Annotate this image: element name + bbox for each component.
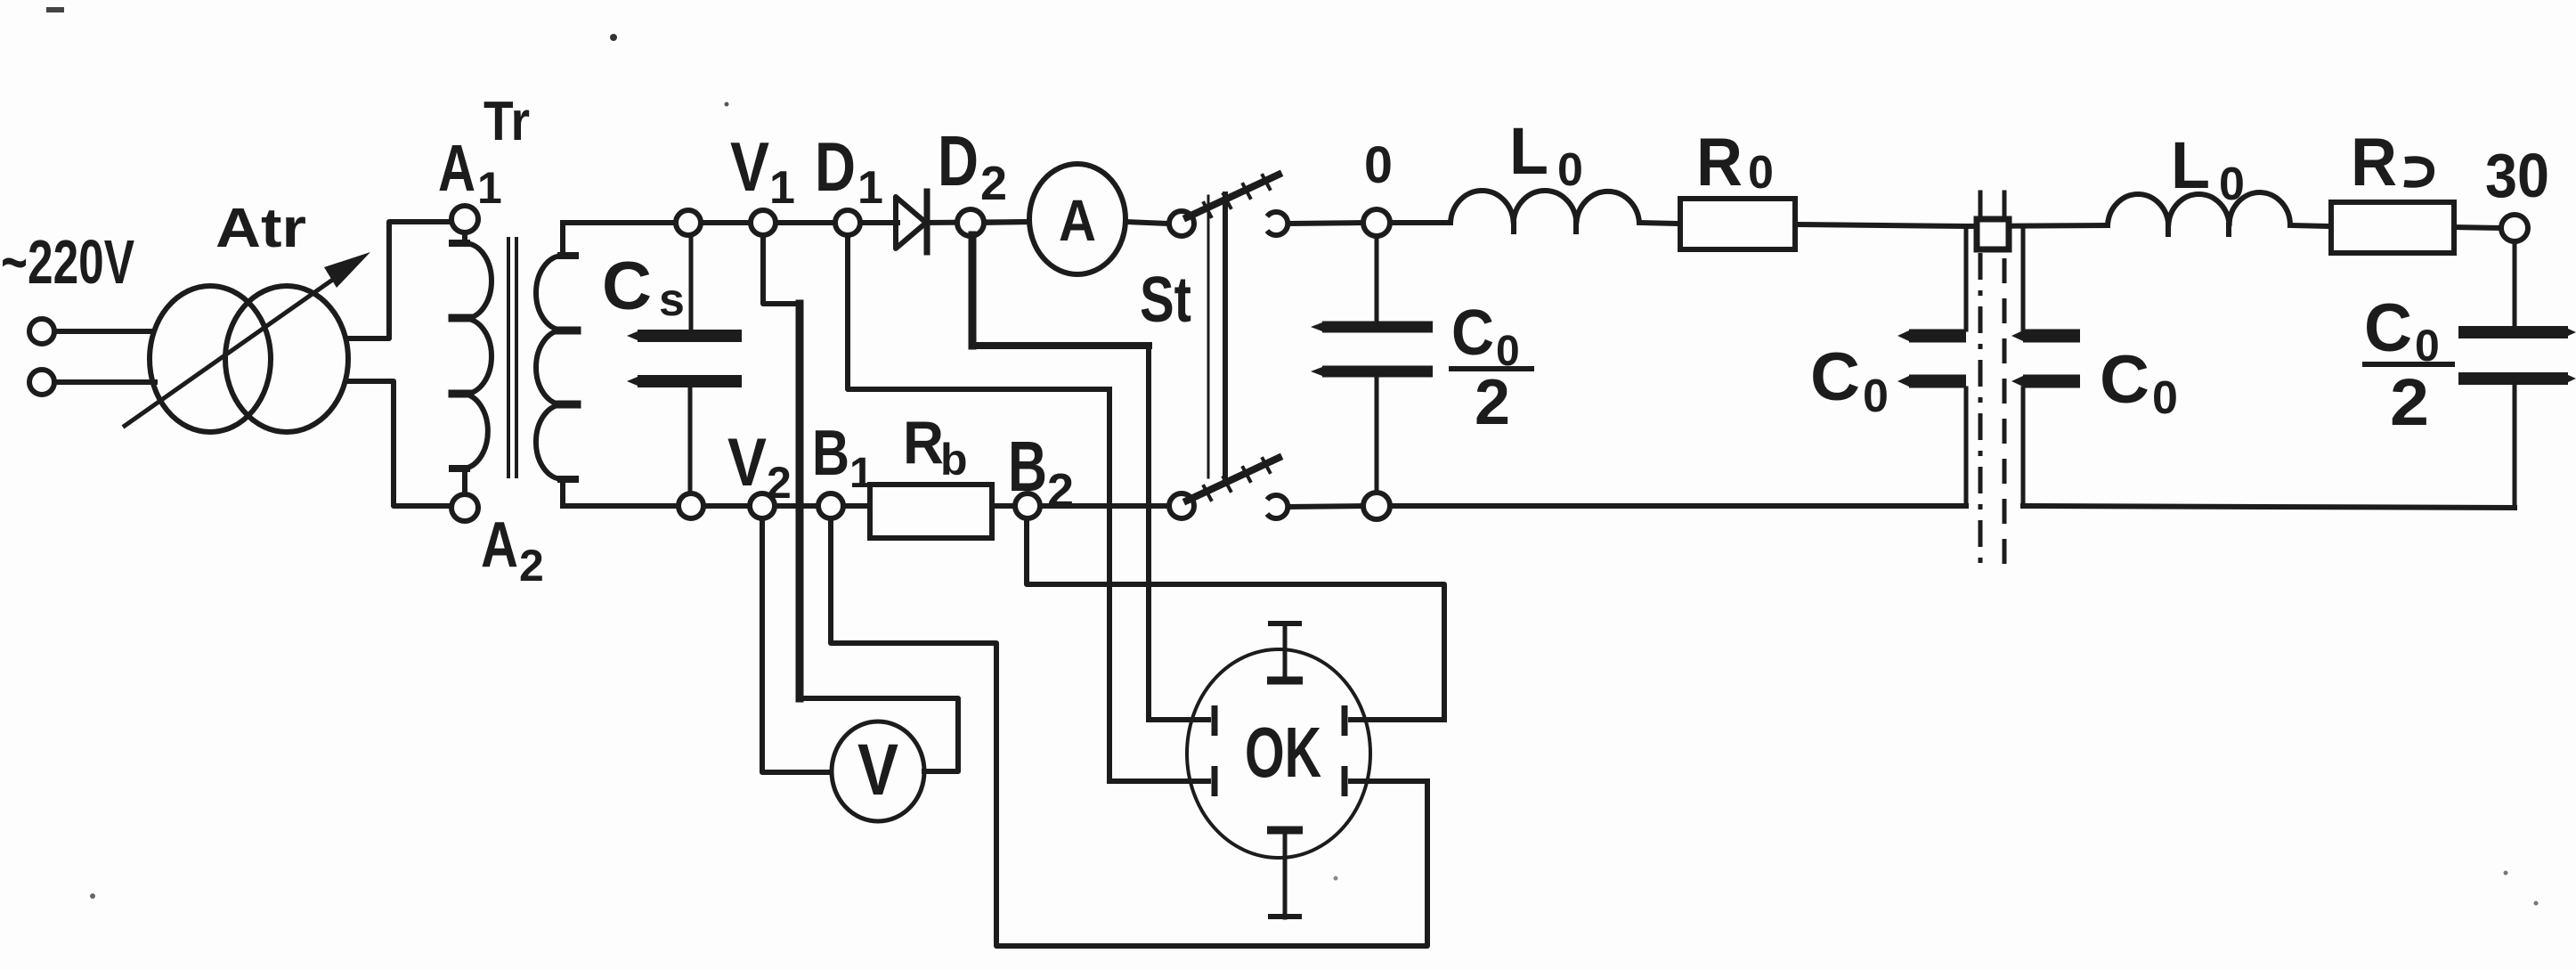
inductor L0 no.1 [1451, 191, 1639, 223]
terminal A1 [451, 206, 478, 232]
divider bushing rect [1977, 219, 2009, 249]
svg-text:B: B [1008, 427, 1047, 506]
wire D2 down thick [969, 235, 977, 346]
svg-text:1: 1 [477, 163, 502, 213]
divider line left solid top [1979, 192, 1983, 219]
wire L0 to R0 no.1 [1639, 223, 1680, 224]
wire lower-right plate to B1 branch [1351, 778, 1427, 784]
svg-text:0: 0 [2219, 159, 2245, 210]
wire D2 branch to upper-left plate [1149, 717, 1208, 722]
wire St contact to node 0 [1288, 223, 1364, 224]
capacitor Cs top plate [638, 330, 742, 342]
svg-text:V: V [857, 730, 898, 811]
capacitor C0 right top plate [2023, 330, 2080, 343]
capacitor C0/2 no.1 top lead [1375, 236, 1379, 322]
OK top electrode [1283, 624, 1288, 681]
svg-text:L: L [2171, 128, 2210, 202]
svg-text:V: V [730, 127, 769, 206]
switch St lower terminal [1169, 493, 1194, 518]
capacitor Cs bottom plate [638, 375, 742, 387]
svg-text:1: 1 [857, 162, 883, 214]
wire junction across divider [1966, 225, 2108, 226]
wire bottom rail to left C0 [1390, 503, 1966, 509]
svg-text:C: C [2100, 342, 2149, 418]
svg-text:A: A [1059, 187, 1096, 253]
diode D [896, 197, 926, 249]
wire B2 down and right [1027, 518, 1444, 720]
autotransformer Atr left circle [150, 286, 271, 432]
OK lower-right deflection plate [1342, 766, 1348, 796]
svg-text:0: 0 [1364, 136, 1393, 194]
svg-text:C: C [1451, 298, 1494, 369]
wire upper-right plate to B2 branch [1351, 717, 1444, 722]
capacitor C0 right top lead [2021, 228, 2026, 330]
OK bottom electrode [1267, 827, 1303, 835]
svg-text:0: 0 [1748, 147, 1774, 199]
node 30 [2501, 215, 2528, 241]
node 0 [1363, 209, 1390, 236]
wire R0 no.1 to junction [1795, 224, 1966, 226]
switch St upper fixed contact [1267, 212, 1288, 235]
wire D1 branch to lower-left plate [1109, 778, 1208, 784]
wire Atr upper output to A1 bus [348, 222, 451, 338]
svg-text:C: C [1810, 339, 1860, 415]
svg-text:2: 2 [1475, 367, 1510, 438]
speckle marks [610, 34, 617, 41]
resistor R0 no.1 [1680, 199, 1795, 249]
node D2 [957, 209, 984, 236]
svg-text:s: s [659, 274, 685, 326]
svg-text:OK: OK [1245, 713, 1321, 792]
wire V2 to voltmeter left [762, 518, 832, 772]
svg-text:2: 2 [519, 541, 544, 591]
svg-text:R: R [1696, 125, 1743, 200]
wire D2 horizontal [972, 342, 1149, 349]
svg-text:2: 2 [2390, 365, 2429, 439]
transformer Tr core [507, 239, 510, 477]
node ~220V terminal lower [29, 370, 54, 395]
node B1 [818, 493, 843, 518]
OK lower-left deflection plate [1212, 766, 1218, 796]
wire bottom rail Rb to St [992, 503, 1169, 509]
wire voltmeter right lead [800, 698, 958, 771]
svg-text:2: 2 [980, 157, 1007, 210]
resistor Rb [870, 485, 992, 538]
node B2 [1015, 493, 1040, 518]
transformer Tr secondary winding [536, 256, 563, 479]
node V2 [750, 493, 775, 518]
switch St upper blade [1187, 175, 1279, 217]
svg-text:0: 0 [1863, 371, 1889, 422]
OK upper-right deflection plate [1342, 705, 1348, 736]
wire D2 vertical to OK upper-left plate [1146, 346, 1151, 720]
wire upper terminal to Atr [55, 329, 151, 334]
wire D1 down [848, 235, 1109, 389]
capacitor C0 right bottom plate [2023, 375, 2080, 388]
svg-text:R: R [903, 409, 944, 477]
capacitor C0/2 no.2 bottom plate [2458, 372, 2568, 385]
wire secondary bottom lead [563, 479, 565, 506]
node bottom under 0 [1363, 493, 1390, 519]
wire Atr lower output to A2 bus [348, 381, 451, 506]
capacitor Cs bottom lead [688, 387, 693, 493]
wire bottom rail right C0 to node 30 branch [2023, 506, 2515, 508]
svg-text:D: D [815, 127, 856, 206]
switch St linkage bar thin [1207, 196, 1210, 477]
capacitor C0 left bottom plate [1909, 375, 1966, 388]
capacitor C0 left top plate [1909, 330, 1966, 343]
svg-text:0: 0 [1557, 144, 1583, 196]
svg-text:B: B [812, 418, 849, 489]
capacitor C0/2 no.2 bottom lead [2513, 385, 2517, 508]
capacitor C0/2 no.1 top plate [1322, 322, 1433, 333]
capacitor C0/2 no.2 top lead [2513, 241, 2517, 326]
capacitor C0 left top lead [1964, 228, 1969, 330]
switch St lower fixed contact [1267, 495, 1288, 518]
wire B1 down and right [831, 518, 1427, 946]
svg-text:1: 1 [849, 450, 874, 497]
capacitor C0/2 no.1 bottom lead [1375, 378, 1379, 493]
wire bottom rail secondary to Rb [563, 503, 870, 509]
svg-text:C: C [2364, 290, 2412, 366]
switch St upper terminal [1169, 211, 1194, 236]
wire node 0 to L0 [1390, 220, 1451, 225]
divider dash-dot line [1979, 253, 1983, 572]
divider dashed line [2003, 258, 2007, 577]
node junction Cs top [676, 210, 701, 235]
oscilloscope tube OK envelope [1187, 649, 1370, 858]
wire R0 no.2 to node 30 [2454, 227, 2502, 228]
wire V1 to voltmeter (upper jog) [763, 235, 800, 304]
wire top rail diode to ammeter [926, 222, 1031, 223]
autotransformer Atr right circle [225, 286, 348, 432]
svg-text:St: St [1140, 265, 1191, 336]
svg-text:~220V: ~220V [1, 227, 134, 297]
svg-text:A: A [481, 509, 518, 581]
wire top rail secondary to diode [563, 220, 898, 225]
svg-text:b: b [940, 435, 968, 485]
voltmeter V [832, 721, 924, 821]
svg-text:Tr: Tr [484, 91, 530, 152]
switch St linkage bar thick [1223, 194, 1228, 479]
wire D1 vertical to OK lower-left plate [1107, 389, 1112, 781]
node V1 [751, 210, 776, 235]
svg-text:C: C [602, 249, 652, 324]
switch St lower blade [1187, 458, 1279, 501]
svg-text:1: 1 [769, 162, 795, 214]
capacitor Cs top lead [689, 235, 694, 330]
capacitor C0 right bottom lead [2021, 388, 2026, 506]
svg-text:R: R [2351, 125, 2397, 200]
node junction Cs bottom [679, 493, 703, 518]
autotransformer Atr adjustment arrow [125, 268, 349, 426]
resistor R0 no.2 [2331, 202, 2454, 253]
wire D2 to ammeter [984, 222, 1031, 223]
capacitor C0/2 no.1 bottom plate [1322, 366, 1433, 378]
node D1 [835, 210, 860, 235]
svg-text:V: V [727, 425, 767, 501]
svg-text:0: 0 [2152, 372, 2178, 424]
svg-text:Atr: Atr [215, 198, 306, 259]
wire St lower contact to bottom node [1288, 506, 1363, 507]
capacitor C0 left bottom lead [1964, 388, 1969, 506]
capacitor C0/2 no.2 top plate [2458, 326, 2568, 338]
svg-text:2: 2 [1047, 464, 1074, 518]
ammeter A [1029, 164, 1125, 274]
inductor L0 no.2 [2108, 192, 2290, 225]
svg-text:30: 30 [2485, 141, 2549, 210]
svg-text:D: D [938, 121, 979, 200]
svg-text:2: 2 [767, 458, 792, 508]
transformer Tr primary winding [465, 233, 492, 493]
wire lower terminal to Atr [55, 379, 155, 385]
wire V1 vertical thick to voltmeter [796, 304, 804, 698]
divider line right solid top [2003, 192, 2007, 219]
OK upper-left deflection plate [1212, 705, 1218, 736]
terminal A2 [451, 494, 478, 521]
wire L0 no.2 to R0 no.2 [2290, 225, 2331, 226]
node ~220V terminal upper [29, 319, 54, 344]
svg-text:A: A [438, 131, 475, 205]
wire secondary top lead [563, 223, 565, 256]
svg-text:L: L [1509, 114, 1548, 188]
wire ammeter to switch St [1125, 222, 1168, 224]
